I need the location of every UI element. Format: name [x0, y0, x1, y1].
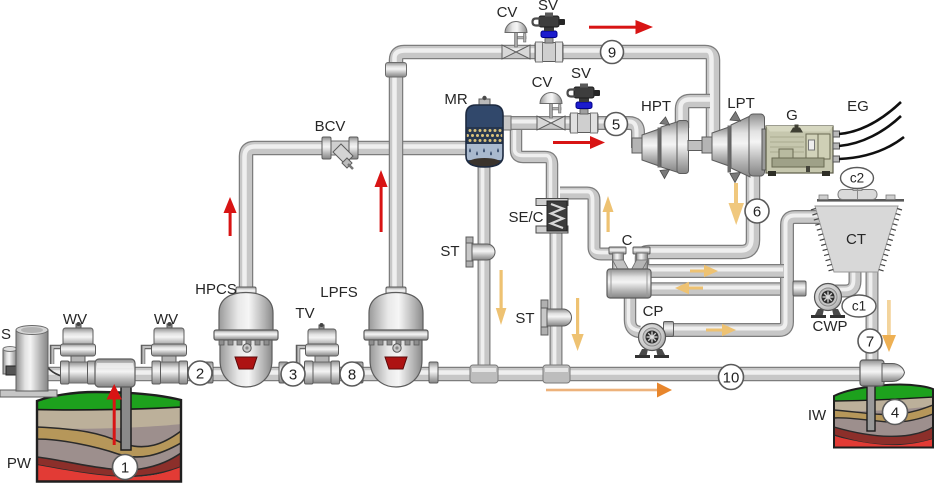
sandy arrow down on blowdown at IW: [882, 300, 896, 352]
wire: LPT exhaust down to condenser: [641, 170, 754, 268]
HPCS vessel: [204, 287, 288, 387]
svg-text:7: 7: [866, 334, 874, 351]
svg-text:6: 6: [753, 204, 761, 221]
node c1: [842, 295, 876, 317]
node 9: [601, 41, 624, 64]
production well PW earth cross-section: [36, 386, 182, 483]
svg-text:SV: SV: [538, 0, 558, 14]
svg-text:C: C: [622, 232, 633, 249]
sandy arrow up on suction line: [603, 196, 614, 232]
svg-text:PW: PW: [7, 455, 32, 472]
svg-text:MR: MR: [444, 91, 467, 108]
wire: SE/C motive steam tap: [515, 128, 553, 204]
generator G: [762, 125, 840, 177]
sandy arrow right on warm water line: [690, 265, 718, 277]
sandy arrow left on cooling water return: [675, 282, 703, 294]
tee fitting at SE/C drain / brine line: [543, 365, 570, 383]
svg-text:SV: SV: [571, 65, 591, 82]
electrical grid cables EG: [839, 102, 904, 159]
svg-text:ST: ST: [515, 310, 534, 327]
svg-text:4: 4: [891, 405, 899, 422]
condenser C: [607, 247, 651, 298]
sandy arrow down on SE/C drain: [572, 298, 584, 351]
wire: warm water line condenser to riser: [646, 270, 784, 272]
wire: PW well casing pipe: [121, 385, 131, 450]
svg-text:WV: WV: [154, 311, 178, 328]
svg-text:LPFS: LPFS: [320, 284, 358, 301]
node 7: [858, 329, 882, 353]
wire: HPCS steam riser + BCV line to MR: [245, 147, 469, 301]
node 6: [745, 199, 769, 223]
production wellhead tee block: [95, 359, 135, 387]
wellhead valve WV (second): [143, 322, 188, 384]
svg-text:CP: CP: [643, 303, 664, 320]
control valve CV (bypass line): [502, 22, 530, 60]
svg-text:CV: CV: [532, 74, 553, 91]
wire: LPFS steam riser + bypass top line down to LPT: [395, 51, 714, 297]
svg-text:IW: IW: [808, 407, 827, 424]
svg-text:c2: c2: [850, 171, 864, 186]
svg-text:HPT: HPT: [641, 98, 671, 115]
svg-text:CWP: CWP: [813, 318, 848, 335]
svg-text:S: S: [1, 326, 11, 343]
red arrow up from production well: [107, 384, 122, 445]
injection well IW earth cross-section: [833, 381, 934, 449]
wire: condensate CP discharge riser to CT top: [666, 216, 819, 331]
high pressure turbine HPT: [632, 117, 703, 179]
steam ejector condenser SE/C: [536, 199, 568, 234]
wire: MR brine drain: [483, 162, 485, 372]
svg-text:3: 3: [289, 367, 297, 384]
wire: gas suction line condenser to SE/C: [560, 192, 616, 255]
svg-text:9: 9: [608, 45, 616, 62]
tee fitting at MR drain / brine line: [470, 365, 498, 383]
node 3: [281, 362, 305, 386]
ball check valve BCV: [322, 137, 358, 169]
wire: HPT exhaust arm to crossover: [681, 100, 711, 129]
svg-text:2: 2: [196, 366, 204, 383]
red arrow up beside LPFS riser: [375, 170, 388, 232]
svg-text:1: 1: [121, 460, 129, 477]
LPFS vessel: [354, 287, 438, 387]
silencer S: [0, 326, 95, 398]
stop valve SV (bypass line): [533, 13, 566, 63]
sandy arrow down beside circle 6: [729, 183, 745, 225]
node 1: [113, 455, 138, 480]
wire: main brine line (silencer to injection wellhead): [46, 373, 868, 375]
svg-text:CT: CT: [846, 231, 866, 248]
condensate pump CP: [635, 322, 674, 359]
node c2: [841, 168, 874, 189]
svg-text:SE/C: SE/C: [508, 209, 543, 226]
sandy arrow right on CP line: [706, 324, 736, 336]
svg-text:G: G: [786, 107, 798, 124]
svg-text:WV: WV: [63, 311, 87, 328]
node 2: [188, 361, 212, 385]
svg-text:5: 5: [612, 117, 620, 134]
cooling tower CT: [811, 186, 904, 272]
throttle valve TV: [298, 323, 340, 384]
svg-text:LPT: LPT: [727, 95, 755, 112]
svg-text:8: 8: [348, 367, 356, 384]
low pressure turbine LPT: [702, 112, 765, 183]
svg-text:CV: CV: [497, 4, 518, 21]
wire: SE/C drain: [555, 228, 557, 372]
union flange on riser below top elbow: [386, 63, 407, 78]
svg-text:TV: TV: [295, 305, 314, 322]
wire: cooling water return (CWP to condenser): [646, 288, 802, 290]
moisture remover MR: [466, 96, 511, 169]
red arrow up beside HPCS riser: [224, 197, 237, 236]
cooling water pump CWP: [793, 281, 845, 318]
svg-text:c1: c1: [852, 299, 866, 314]
red arrow on bypass line: [589, 20, 653, 34]
svg-text:ST: ST: [440, 243, 459, 260]
svg-text:EG: EG: [847, 98, 869, 115]
wire: MR steam line to HPT inlet: [500, 122, 638, 149]
node 8: [340, 362, 364, 386]
node 5: [605, 113, 628, 136]
sandy arrow down on MR drain: [496, 270, 507, 325]
wire: CT cold water downpipe to CWP: [833, 269, 855, 291]
control valve CV (main steam line): [537, 93, 565, 131]
svg-text:10: 10: [723, 370, 740, 387]
wire: condenser bottom outlet to CP: [629, 294, 641, 332]
node 4: [883, 400, 908, 425]
steam trap ST (MR drain): [466, 237, 495, 267]
steam trap ST (SE/C drain): [541, 300, 572, 335]
svg-text:HPCS: HPCS: [195, 281, 237, 298]
wire: CT blowdown downpipe to injection wellhead: [871, 269, 873, 362]
node 10: [719, 365, 744, 390]
svg-text:BCV: BCV: [315, 118, 346, 135]
wire: IW well casing pipe: [867, 383, 875, 431]
stop valve SV (main steam line): [568, 84, 601, 134]
red arrow on main steam line: [553, 136, 605, 149]
wellhead valve WV (first): [52, 322, 96, 384]
injection wellhead tee + nozzle: [860, 360, 905, 386]
orange arrow right on brine line: [546, 383, 672, 398]
